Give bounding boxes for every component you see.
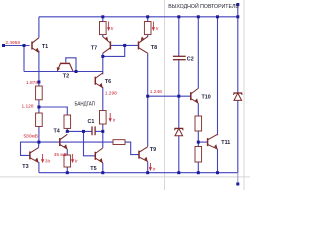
transistor T4 <box>60 134 68 149</box>
node rail T11 <box>216 15 219 18</box>
transistor T9 <box>139 147 148 162</box>
wire top supply rail <box>39 16 238 18</box>
page border vertical line right <box>243 0 245 190</box>
svg-text:C2: C2 <box>187 56 194 62</box>
node input branch <box>23 44 26 47</box>
white canvas background <box>0 0 250 190</box>
svg-text:45 мВ: 45 мВ <box>54 152 67 158</box>
wire horizontal resistor to T9 base <box>125 142 139 155</box>
wire T7 collector to T6 collector <box>102 56 104 74</box>
node 1.878 <box>37 81 40 84</box>
resistor horizontal T9 base <box>113 140 125 145</box>
wire node to T5 collector <box>102 131 104 148</box>
current arrow Ig T6 resistor <box>109 113 112 122</box>
wire output stub bottom right <box>237 173 239 184</box>
wire input to T1 base <box>4 45 30 47</box>
svg-text:T10: T10 <box>202 94 211 100</box>
capacitor C1 <box>92 126 95 135</box>
svg-text:Iг: Iг <box>75 159 78 164</box>
node rail C2 <box>177 15 180 18</box>
wire mirror diode drop <box>103 45 125 56</box>
svg-text:T11: T11 <box>221 140 230 146</box>
wire resistor to node 580mV <box>38 127 40 143</box>
wire T7 emitter stub <box>102 35 104 37</box>
transistor T10 <box>191 88 199 103</box>
wire T2 base-collector loop <box>66 58 76 72</box>
transistor T5 <box>95 148 103 163</box>
node mirror input <box>101 55 104 58</box>
node input port <box>2 44 5 47</box>
svg-text:T3: T3 <box>22 164 28 170</box>
resistor divider upper <box>36 86 43 100</box>
svg-text:T9: T9 <box>150 147 156 153</box>
node bottom right port <box>236 183 239 186</box>
node gnd T5 <box>101 171 104 174</box>
wire diode to ground rail <box>178 136 180 173</box>
wire T1 emitter drop <box>38 51 40 86</box>
svg-text:T5: T5 <box>90 166 96 172</box>
node T5 collector <box>101 130 104 133</box>
wire T7 load resistor top <box>102 17 104 22</box>
resistor T8 load <box>144 22 151 35</box>
svg-text:T7: T7 <box>91 46 97 52</box>
wire lower resistor to ground <box>197 162 199 173</box>
node T11 base <box>197 141 200 144</box>
svg-text:T6: T6 <box>105 79 111 85</box>
wire T3 base jog <box>21 142 39 155</box>
capacitor C2 <box>173 56 186 59</box>
svg-text:580мВ: 580мВ <box>23 134 38 140</box>
wire C2 top lead <box>178 17 180 56</box>
svg-text:T4: T4 <box>54 128 60 134</box>
wire node580 to horizontal resistor <box>39 141 113 143</box>
resistor T7 load <box>100 22 107 35</box>
wire node1128 to T4 resistor <box>39 107 67 115</box>
wire T8 load resistor top <box>147 17 149 22</box>
resistor divider lower <box>36 113 43 127</box>
svg-text:1.128: 1.128 <box>21 104 33 110</box>
wire T6 emitter to resistor <box>102 87 104 110</box>
wire input branch vertical <box>23 46 25 72</box>
wire resistor to T11 base node <box>197 131 199 147</box>
svg-text:Iг: Iг <box>156 26 159 31</box>
node rail right corner <box>236 15 239 18</box>
node gnd T4col <box>66 171 69 174</box>
current arrow If T7 <box>107 22 110 32</box>
node rail T7 <box>101 15 104 18</box>
svg-text:2.4958: 2.4958 <box>5 40 20 46</box>
page border horizontal line bottom <box>0 176 250 178</box>
transistor T11 <box>208 134 218 149</box>
resistor T4 collector load <box>64 115 71 128</box>
wire right rail upper <box>237 5 239 94</box>
transistor T2 diode-connected <box>57 63 73 71</box>
wire T4 emitter resistor to ground <box>66 167 68 173</box>
diode D2 output clamp <box>233 93 242 100</box>
current arrow If T8 <box>152 22 155 32</box>
svg-text:1.248: 1.248 <box>150 89 162 95</box>
node rail T10 <box>197 15 200 18</box>
node rail T8 <box>146 15 149 18</box>
wire bandgap output to T10 base <box>148 95 191 97</box>
wire T7 collector stub <box>102 53 104 56</box>
transistor T7 <box>103 37 111 54</box>
current arrow Ig T4 resistor <box>71 154 74 163</box>
wire T9 emitter to ground <box>147 162 149 173</box>
node C2 bottom <box>177 95 180 98</box>
wire T11 collector column <box>217 17 219 135</box>
node T4 collector <box>66 130 69 133</box>
svg-text:1.878: 1.878 <box>26 80 38 86</box>
transistor T3 <box>30 148 39 163</box>
page border vertical line left <box>164 0 166 190</box>
wire T10 emitter to resistor <box>197 103 199 116</box>
node T2 collector tie <box>75 70 78 73</box>
node bandgap out <box>146 95 149 98</box>
transistor T8 <box>139 37 148 54</box>
wire T1 collector riser <box>38 17 40 38</box>
wire T10 collector column <box>197 17 199 89</box>
node 580mV <box>37 141 40 144</box>
resistor T6 emitter <box>100 111 107 125</box>
node base tie <box>123 44 126 47</box>
svg-text:T1: T1 <box>42 44 48 50</box>
wire T2 emitter rail <box>24 71 103 73</box>
wire T5 emitter to ground rail <box>102 163 104 173</box>
transistor T1 <box>32 38 39 53</box>
wire bottom ground rail <box>39 172 238 174</box>
wire node to C1 left <box>67 130 92 132</box>
wire T3 emitter drop <box>38 162 40 173</box>
current arrow Ig T9 <box>149 163 152 171</box>
svg-text:T8: T8 <box>151 45 157 51</box>
current arrow 3Ig T3 <box>41 154 44 163</box>
node gnd T11 <box>216 171 219 174</box>
wire T8 emitter stub <box>147 35 149 37</box>
svg-text:T2: T2 <box>63 74 69 80</box>
resistor T4 emitter <box>64 155 71 167</box>
svg-text:Iг: Iг <box>113 118 116 123</box>
resistor T10 emitter upper <box>195 116 202 131</box>
wire resistor to node col102 <box>102 124 104 131</box>
node T5 base tap <box>82 130 85 133</box>
svg-text:Iг: Iг <box>153 167 156 172</box>
wire C1 right to T5 collector node <box>95 130 103 132</box>
node gnd T9 <box>146 171 149 174</box>
node top right port <box>236 3 239 6</box>
svg-text:Iг: Iг <box>111 26 114 31</box>
wire right rail lower <box>237 100 239 172</box>
wire between resistors col39 <box>38 100 40 113</box>
svg-text:ВЫХОДНОЙ ПОВТОРИТЕЛЬ: ВЫХОДНОЙ ПОВТОРИТЕЛЬ <box>168 2 239 10</box>
diode D1 bandgap clamp <box>174 128 183 135</box>
wire T11 emitter to ground <box>217 149 219 173</box>
wire T4 emitter to resistor <box>66 149 68 155</box>
svg-text:БАНДГАП: БАНДГАП <box>75 101 96 107</box>
transistor T6 <box>95 73 103 88</box>
wire C2 bottom lead to diode <box>178 60 180 129</box>
node gnd R <box>197 171 200 174</box>
node 1.128 <box>37 106 40 109</box>
wire T11 base <box>198 141 207 143</box>
wire T4 resistor to node <box>66 128 68 131</box>
resistor T10 emitter lower <box>195 147 202 163</box>
wire T5 base jog <box>84 131 96 155</box>
svg-text:3Iг: 3Iг <box>45 159 51 164</box>
wire T7 T8 base tie <box>110 44 138 46</box>
wire T8 collector to T9 collector <box>147 53 149 146</box>
svg-text:C1: C1 <box>88 119 95 125</box>
svg-text:1.298: 1.298 <box>105 91 117 97</box>
node gnd diode <box>177 171 180 174</box>
wire T3 collector riser <box>38 142 40 148</box>
